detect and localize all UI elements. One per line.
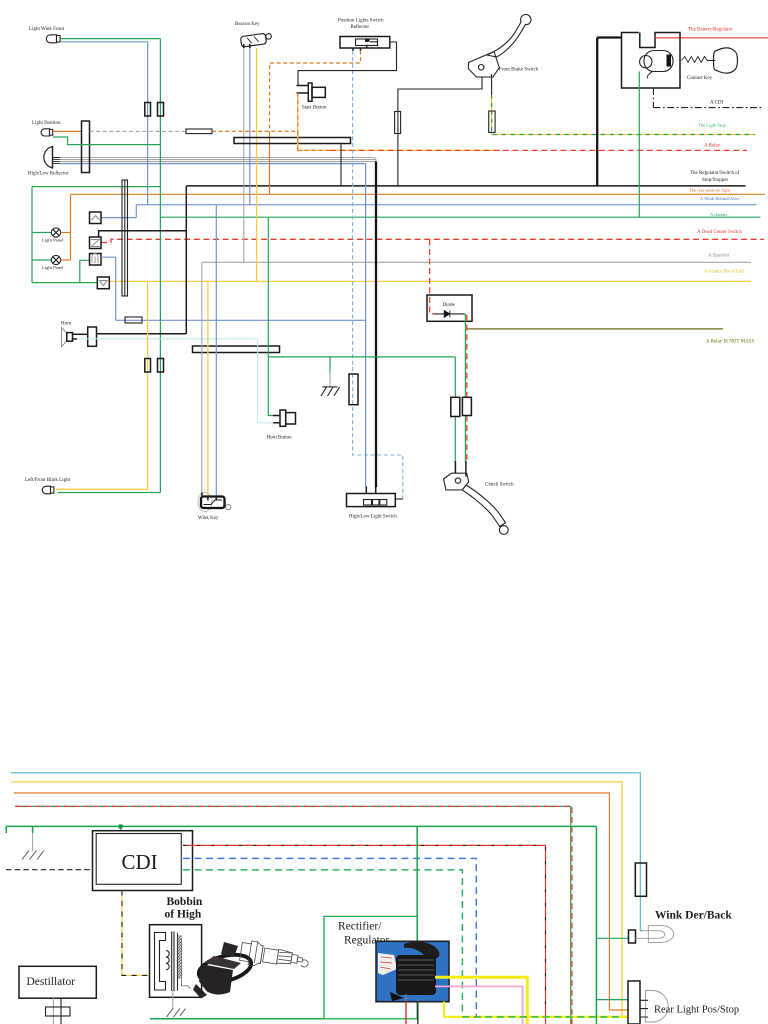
wire: blink green [58, 492, 161, 494]
svg-text:A Wink Behind/After: A Wink Behind/After [700, 196, 740, 201]
wire: A Sparkler gray bus [202, 261, 751, 263]
wire: relay yellow/orange riser continue [297, 131, 299, 150]
wire: start button yellow/orange dashed drop [297, 93, 299, 150]
fuse F2 green [158, 103, 164, 117]
svg-text:Diode: Diode [443, 303, 456, 308]
wire: A Glance Back/Left yellow bus [109, 280, 751, 282]
wire: orange panel row2 [61, 259, 71, 261]
wire: green panel row1 [32, 232, 52, 234]
connector: tall rect A [122, 180, 128, 296]
fuse: clutch left [451, 397, 460, 416]
svg-text:A Relay IS NOT MASS: A Relay IS NOT MASS [706, 340, 754, 345]
wire: light position green drop [53, 137, 160, 145]
svg-text:Horn: Horn [61, 322, 72, 327]
wire: green squiggle to rear socket [596, 999, 628, 1001]
wire: regulator/switch stop bus black [186, 185, 745, 187]
svg-text:Stop/Stopper: Stop/Stopper [702, 178, 728, 183]
wire: yellow stop into rear socket [622, 1016, 628, 1018]
svg-text:The Battery/Regulator: The Battery/Regulator [688, 28, 733, 33]
wire: green riser to icon3 [80, 260, 90, 282]
wire: battery/regulator red bus [656, 37, 768, 39]
lamp: light position bulb [41, 129, 53, 136]
destillator box [19, 966, 96, 998]
wire: contact key to main switch black stub [597, 36, 621, 38]
green box: rectifier/regulator [324, 916, 417, 1018]
wire: orange dashed riser reflector [270, 51, 361, 132]
wire: pale cyan y338.8 [77, 338, 258, 340]
wire: cyan bus [11, 773, 642, 932]
key: wink key [198, 493, 231, 512]
lamp: light panel 2 [51, 255, 60, 264]
svg-text:The Light Stop: The Light Stop [698, 123, 727, 128]
connector: rear light socket [628, 981, 640, 1024]
connector: inline rect on dashed line [186, 129, 212, 134]
wire: orange vertical x70.5 panels [70, 194, 72, 260]
wire: yellow vertical x147.6 [147, 281, 149, 489]
wires: under destillator [52, 998, 54, 1024]
svg-text:Destillator: Destillator [27, 976, 76, 988]
wire: gray sparkler triple from reflector [60, 158, 376, 162]
wire: green dashed from CDI [183, 870, 462, 1017]
ground: under bobbin [172, 991, 174, 1010]
wire: orange solid x269.5 lower [269, 131, 271, 194]
switch: high/low light switch box [347, 494, 396, 507]
transformer internals [155, 932, 178, 992]
horn speaker [62, 328, 73, 347]
wire: yellow drop from photo corner [443, 1002, 445, 1017]
wire: horn black stub [73, 333, 88, 335]
wire: A Dead Center Switch red dashed bus [101, 239, 764, 242]
svg-text:A Glance Back/Left: A Glance Back/Left [704, 270, 745, 275]
wire: icon1 blue stub [101, 217, 136, 219]
wire: blink yellow [56, 488, 148, 490]
fuse: on light stop wire [489, 111, 495, 132]
wire: A chassis green bus [160, 216, 760, 218]
wire: red dashed riser to diode [430, 239, 435, 314]
pins: wink key [202, 493, 217, 501]
lever: clutch switch [444, 473, 509, 534]
wire: horn black bus y333.7 [97, 333, 187, 335]
wire: blue fold-down x365.6 [365, 164, 367, 487]
wire: gray fold-down into thick vertical [373, 158, 376, 163]
wire: yellow w/black dash CDI to bobbin [122, 891, 150, 976]
lamp: light panel 1 [51, 228, 60, 237]
wire: blue vertical x216.3 to wink key [215, 205, 217, 499]
wire: A Relay IS NOT MASS olive bus [467, 328, 723, 330]
wire: green thick vertical x596 [595, 826, 597, 1024]
connector: inline rect on blue bus [125, 317, 142, 323]
wire: stop light yellow w/green dash to rear [444, 1016, 629, 1018]
wire: green main bus y826.4 [6, 825, 596, 827]
svg-text:A Sparkler: A Sparkler [708, 254, 730, 259]
svg-text:Clutch Switch: Clutch Switch [485, 483, 514, 488]
switch icon3 (horn) [90, 254, 102, 266]
wire: headlight blue y163.6 [60, 163, 366, 165]
wire: rear position light orange bus [71, 193, 766, 195]
wire: light position orange [53, 130, 82, 132]
wire: reflector black right [298, 42, 397, 86]
svg-text:Start Button: Start Button [302, 106, 327, 111]
switch icon1 (passing) [90, 212, 102, 224]
wire: red from rectifier bottom [405, 1002, 407, 1024]
fuse: wink der cyan connector [635, 863, 646, 896]
wire: thick black vertical x376 [375, 162, 377, 488]
wire: The Light Stop bus (yellow w/ green dashes) [493, 134, 756, 136]
diode: symbol [434, 311, 465, 318]
fuse F1 blue [145, 103, 151, 117]
wire: thick yellow from rectifier [435, 977, 527, 1024]
wire: pink from rectifier [435, 986, 523, 1024]
rectifier photo [376, 941, 449, 1002]
relay: horn relay tall rect [88, 327, 97, 346]
wire: green bottom row to icon4 [32, 282, 97, 284]
svg-text:High/Low Reflector: High/Low Reflector [28, 172, 69, 177]
wire: blue dashed from reflector [353, 51, 403, 500]
svg-text:Light Panel: Light Panel [42, 265, 64, 270]
connector: wink bulb socket [629, 930, 636, 943]
ground: left of CDI [32, 826, 34, 833]
wire: green clutch drop x455 [454, 357, 456, 462]
wire: A Relay bus (yellow w/ red dashes) [298, 149, 500, 151]
wire: black thick vertical x597 [596, 38, 598, 186]
pins: beacon key [244, 44, 250, 48]
wire: yellow vertical x207.9 to wink key [207, 281, 209, 499]
wire: green into rectifier photo [416, 826, 418, 944]
CDI box [93, 831, 193, 891]
CDI: green top junction [119, 824, 123, 828]
wire: red w/black dashes from CDI [183, 845, 546, 1024]
busbar: upper long bar [234, 138, 351, 144]
wire: gray dashed y131.4 [90, 130, 187, 132]
switch: position lights reflector box [340, 37, 390, 49]
svg-text:Contact Key: Contact Key [687, 76, 713, 81]
svg-text:Position Lights Switch: Position Lights Switch [338, 19, 384, 24]
svg-text:Rear Light Pos/Stop: Rear Light Pos/Stop [654, 1005, 739, 1016]
wire: wink front green to x160 [61, 38, 161, 40]
wire: brake black [398, 78, 482, 186]
wire: blue dashed return into switch [395, 498, 403, 500]
wire: orange dashed y131.4 [212, 130, 298, 132]
lamp: light wink front bulb [46, 35, 60, 43]
svg-text:High/Low Light Switch: High/Low Light Switch [349, 515, 397, 520]
fuse: on brake wire [395, 112, 401, 134]
svg-text:Wink Der/Back: Wink Der/Back [655, 910, 732, 922]
lamp: left front blink bulb [42, 486, 54, 494]
wire: blue handlebar bus y320 [116, 319, 366, 321]
key: contact key teeth and head [682, 48, 738, 73]
svg-text:Light Wink Front: Light Wink Front [29, 27, 65, 32]
svg-text:Rectifier/: Rectifier/ [338, 921, 382, 933]
wire: green segment under bobbin [150, 1018, 324, 1020]
wire: wink front blue to x147.6 [61, 41, 148, 43]
fuse: clutch right [462, 397, 471, 415]
wire: icon3 blue out [101, 257, 116, 320]
wire: black long-dash into CDI [6, 869, 93, 871]
transformer: bobbin box [150, 925, 202, 998]
wire: green vertical from contact key [638, 72, 640, 218]
switch: horn button [273, 410, 296, 426]
wire: diode output green+red pair down [464, 314, 466, 397]
busbar: lower bar [193, 346, 280, 353]
wire: yellow bus to rear [11, 782, 622, 1017]
wire: pale cyan drop to horn button [258, 339, 274, 423]
fuse F3 yellow [145, 359, 151, 373]
wire: beacon yellow vertical [256, 48, 258, 281]
wire: blue dashed from CDI [183, 858, 476, 1017]
wire: ground stem x330 [329, 357, 331, 373]
svg-text:Horn Button: Horn Button [267, 436, 293, 441]
wire: light stop dashed drop [491, 95, 493, 135]
lamp: rear light pos/stop bulb [640, 991, 668, 1023]
lamp: high/low reflector [44, 146, 60, 169]
switch icon4 (winker) [97, 277, 109, 289]
wire: orange panel row1 [61, 232, 71, 234]
lock: contact key barrel [640, 51, 673, 79]
wire: green vertical x32 [31, 187, 33, 283]
key: beacon key body [240, 33, 266, 47]
wire: icon2 black up-over [99, 231, 187, 237]
wire: green squiggle to wink bulb [596, 937, 628, 939]
wire: orange bus to rear [14, 793, 610, 1010]
wire: A Wink Behind/After blue bus [136, 204, 756, 206]
lamp: wink der/back bulb [636, 926, 674, 943]
fuse: on blue dashed [349, 374, 358, 405]
wire: beacon blue vertical [249, 48, 251, 205]
svg-text:Reflector: Reflector [351, 25, 370, 30]
svg-text:Bobbin: Bobbin [167, 896, 203, 908]
wire: blue vertical x147.6 (headlight feed) [147, 42, 149, 205]
wire: green under red dashed y806 [15, 806, 571, 1024]
switch: start button [297, 83, 326, 101]
diode: box [427, 295, 472, 321]
wire: blue riser x136.3 [135, 205, 137, 218]
wire: left green branch y186.6 [32, 186, 160, 188]
lever: front brake lever [468, 14, 531, 77]
svg-text:Wink Key: Wink Key [198, 516, 219, 521]
wire: horn cyan stub [73, 338, 77, 340]
switch: contact key box [622, 33, 681, 89]
pins: clutch switch [455, 461, 466, 477]
wire: black vertical x186.3 [185, 186, 187, 334]
svg-text:CDI: CDI [122, 850, 158, 874]
switch icon2 (beam) [90, 237, 102, 249]
wire: red dashed y806 to rectifier [16, 806, 572, 1024]
svg-text:Beacon Key: Beacon Key [235, 22, 260, 27]
wire: green chassis drop to horn button [268, 217, 273, 415]
connector: handlebar connector rect [82, 121, 90, 173]
svg-text:Light Position: Light Position [32, 121, 61, 126]
wire: bar pin black x341 [340, 144, 342, 186]
svg-text:Light Panel: Light Panel [42, 238, 64, 243]
svg-text:Front Brake Switch: Front Brake Switch [499, 68, 539, 73]
svg-text:A CDI: A CDI [710, 101, 724, 106]
wire: green y356.9 chassis branch [268, 356, 455, 358]
svg-text:The rear position light: The rear position light [689, 188, 731, 193]
svg-text:of High: of High [165, 909, 202, 921]
wire: A CDI dash-dot riser [652, 88, 654, 108]
wire: cyan into wink bulb [640, 930, 641, 932]
svg-text:A chassis: A chassis [710, 212, 727, 217]
ground: under chassis branch [321, 387, 340, 396]
pins: reflector [353, 45, 367, 51]
svg-text:A Relay: A Relay [704, 144, 721, 149]
spark plug cap photo [193, 942, 251, 999]
fuse F4 green [158, 359, 164, 373]
svg-text:Left/Front Blink Light: Left/Front Blink Light [25, 478, 71, 483]
wire: gray vertical x201.8 to wink key [201, 262, 203, 495]
wire: beacon gray vertical [243, 48, 245, 262]
wire: black from rectifier bottom [417, 1002, 419, 1024]
wire: orange into rear socket [609, 1009, 628, 1011]
svg-text:The Regulator/Switch of: The Regulator/Switch of [690, 171, 740, 176]
wire: green stub left end [5, 826, 7, 833]
wire: brake second contact black [491, 74, 493, 95]
wire: red battery into key notch [654, 37, 657, 39]
pins: high/low switch [366, 486, 375, 494]
wire: A CDI dash-dot bus [653, 107, 762, 109]
wire: green panel row2 [32, 259, 52, 261]
spark plug drawing [239, 940, 310, 974]
svg-text:A Dead Center Switch: A Dead Center Switch [697, 230, 742, 235]
wire: green vertical x160.4 full [159, 39, 161, 493]
